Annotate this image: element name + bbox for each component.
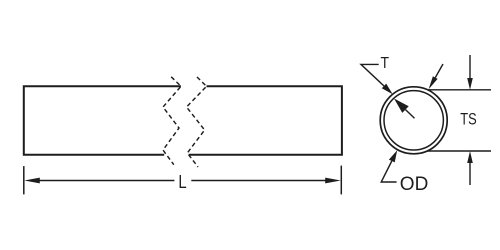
dimension line L left part bbox=[38, 180, 174, 182]
label L bbox=[178, 171, 186, 192]
extension line left bbox=[23, 166, 25, 194]
svg-text:L: L bbox=[178, 171, 186, 192]
svg-text:T: T bbox=[381, 55, 390, 72]
TS bottom arrow bbox=[469, 163, 471, 185]
tube body left segment bbox=[24, 86, 181, 155]
wall thickness arrow from center bbox=[406, 110, 415, 119]
tube body right segment bbox=[189, 86, 342, 155]
svg-text:OD: OD bbox=[400, 174, 429, 195]
T leader arrowhead bbox=[382, 84, 393, 95]
extension line right bbox=[340, 166, 342, 195]
dimension arrowhead right bbox=[325, 178, 341, 184]
cross-section inner circle bbox=[384, 91, 443, 150]
label OD bbox=[400, 174, 429, 195]
T leader line bbox=[361, 64, 384, 86]
TS top extension line bbox=[428, 89, 491, 91]
break line right (dashed zigzag) bbox=[187, 77, 207, 167]
upper right arrow bbox=[435, 64, 443, 78]
label TS bbox=[460, 111, 477, 129]
label T bbox=[381, 55, 390, 72]
dimension line L right part bbox=[191, 180, 327, 182]
svg-text:TS: TS bbox=[460, 111, 477, 129]
cross-section outer circle bbox=[380, 87, 447, 154]
TS bottom extension line bbox=[427, 150, 491, 152]
TS top arrow bbox=[469, 55, 471, 79]
dimension arrowhead left bbox=[24, 178, 40, 184]
OD leader line bbox=[381, 161, 396, 182]
break line left (dashed zigzag) bbox=[163, 77, 181, 165]
OD leader arrowhead bbox=[389, 150, 397, 162]
